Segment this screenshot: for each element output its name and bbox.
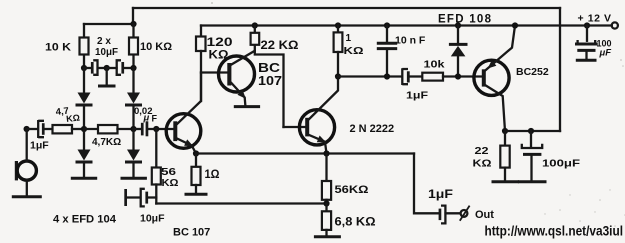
svg-text:1: 1 <box>346 33 352 44</box>
node: diode chain right / main line <box>130 126 136 132</box>
resistor R3 4,7K <box>53 125 73 133</box>
node: diode chain left / main line <box>81 126 87 132</box>
svg-text:1μF: 1μF <box>406 90 429 102</box>
svg-text:KΩ: KΩ <box>162 177 179 189</box>
capacitor C10 100µF filter <box>586 26 588 41</box>
power: +12V terminal <box>584 22 590 28</box>
node: Q3 collector / mid line <box>335 73 341 79</box>
svg-text:BC 107: BC 107 <box>173 227 210 239</box>
diode D5 EFD108 <box>455 22 461 28</box>
wire: right net line <box>502 128 508 134</box>
ground: between caps <box>106 68 108 85</box>
ground: R13 <box>315 235 339 238</box>
svg-text:100μF: 100μF <box>542 158 581 170</box>
resistor R12 56KΩ <box>325 154 327 182</box>
resistor R4 4,7KΩ <box>84 128 98 130</box>
wire: rail1 left corner drop <box>132 8 134 24</box>
resistor R7 120KΩ <box>200 26 202 37</box>
svg-text:22: 22 <box>475 145 489 157</box>
wire: input to C3 <box>27 128 38 130</box>
svg-text:22 KΩ: 22 KΩ <box>261 40 299 52</box>
svg-text:http://www.qsl.net/va3iul: http://www.qsl.net/va3iul <box>485 223 624 239</box>
diode D2 EFD104 <box>132 68 134 93</box>
wire: +V rail2 <box>201 24 612 26</box>
svg-text:10 KΩ: 10 KΩ <box>140 41 172 53</box>
wire: Q2 collector to Q3 base <box>255 51 284 127</box>
svg-text:1Ω: 1Ω <box>205 167 220 181</box>
wire: emitter line <box>196 152 414 154</box>
diode D1 EFD104 <box>83 68 85 93</box>
resistor R8 22KΩ <box>252 22 258 28</box>
svg-text:10μF: 10μF <box>95 47 118 58</box>
svg-text:10 K: 10 K <box>45 42 71 54</box>
svg-text:2 x: 2 x <box>97 36 111 47</box>
svg-text:10 n F: 10 n F <box>395 35 426 47</box>
svg-text:2 N 2222: 2 N 2222 <box>350 123 395 135</box>
ground: R6 <box>186 193 206 196</box>
ground: C8 <box>519 180 545 183</box>
capacitor C2 10µF <box>107 67 117 69</box>
resistor R2 10KΩ <box>132 24 134 68</box>
resistor R5 56KΩ <box>155 129 157 168</box>
svg-text:KΩ: KΩ <box>344 45 364 57</box>
terminal: Out <box>461 210 468 217</box>
transistor Q2 BC107 <box>219 56 255 92</box>
wire: +V rail1 top <box>133 7 560 9</box>
wire: rail1 right drop <box>559 8 561 131</box>
svg-text:10k: 10k <box>424 59 445 71</box>
resistor R13 6,8KΩ <box>325 204 327 212</box>
svg-text:KΩ: KΩ <box>66 113 81 124</box>
wire: Q2 base tee <box>201 71 227 73</box>
capacitor C4 0,02µF <box>134 128 141 130</box>
ground: mic <box>13 195 40 198</box>
svg-text:KΩ: KΩ <box>473 158 492 170</box>
node: cap line right <box>130 65 136 71</box>
node: center of 2x10uF <box>104 65 110 71</box>
resistor R11 22KΩ <box>504 131 506 146</box>
capacitor C8 100µF <box>528 128 534 134</box>
resistor R10 10k <box>422 73 443 81</box>
svg-text:+ 12 V: + 12 V <box>578 13 612 25</box>
ground: R11 <box>493 180 518 183</box>
capacitor C5 1µF <box>402 68 408 85</box>
svg-text:1μF: 1μF <box>30 140 49 152</box>
svg-text:BC: BC <box>258 60 281 75</box>
node: Q1 emitter node <box>193 150 199 156</box>
wire: output drop <box>414 154 438 214</box>
resistor R9 1KΩ <box>335 22 341 28</box>
transistor Q4 BC252 <box>474 60 509 95</box>
wire: left top link <box>84 23 134 25</box>
svg-text:4 x EFD 104: 4 x EFD 104 <box>53 214 117 226</box>
svg-text:μ: μ <box>143 113 150 124</box>
node: cap line left <box>81 65 87 71</box>
svg-text:BC252: BC252 <box>516 66 549 78</box>
transistor Q1 BC107 <box>166 114 201 149</box>
node: Q1 base node <box>153 126 159 132</box>
svg-text:EFD 108: EFD 108 <box>438 14 492 26</box>
capacitor C9 1µF out <box>439 209 442 221</box>
wire: mid line <box>338 75 402 77</box>
ground: D3 <box>72 177 95 180</box>
svg-text:6,8 KΩ: 6,8 KΩ <box>335 217 376 229</box>
capacitor C6 10nF <box>384 22 390 28</box>
node: emitter junction Q3 <box>323 150 329 156</box>
diode D4 EFD104 <box>132 129 134 150</box>
ground: D4 <box>122 177 145 180</box>
transistor Q3 2N2222 <box>284 126 306 128</box>
ground: C10 <box>577 59 595 62</box>
svg-text:1μF: 1μF <box>428 189 453 201</box>
resistor R6 1Ω <box>195 154 197 167</box>
node: junction rail1/10K right <box>130 21 136 27</box>
microphone MIC <box>15 161 18 180</box>
node: R12/R13 junction <box>323 200 329 206</box>
wire: bottom rail <box>156 202 326 204</box>
capacitor C3 1µF input <box>38 120 44 138</box>
node: input node <box>24 126 30 132</box>
capacitor C7 10µF <box>124 189 127 206</box>
resistor R1 10K <box>83 24 85 68</box>
svg-text:107: 107 <box>258 74 282 88</box>
svg-text:10μF: 10μF <box>140 213 165 225</box>
svg-text:F: F <box>152 114 158 124</box>
svg-text:μF: μF <box>599 48 612 59</box>
svg-text:56KΩ: 56KΩ <box>335 184 369 196</box>
capacitor C1 10µF <box>84 67 91 69</box>
diode D3 EFD104 <box>83 129 85 150</box>
svg-text:4,7KΩ: 4,7KΩ <box>92 137 121 148</box>
svg-text:Out: Out <box>475 209 494 221</box>
speckle noise <box>211 2 625 227</box>
